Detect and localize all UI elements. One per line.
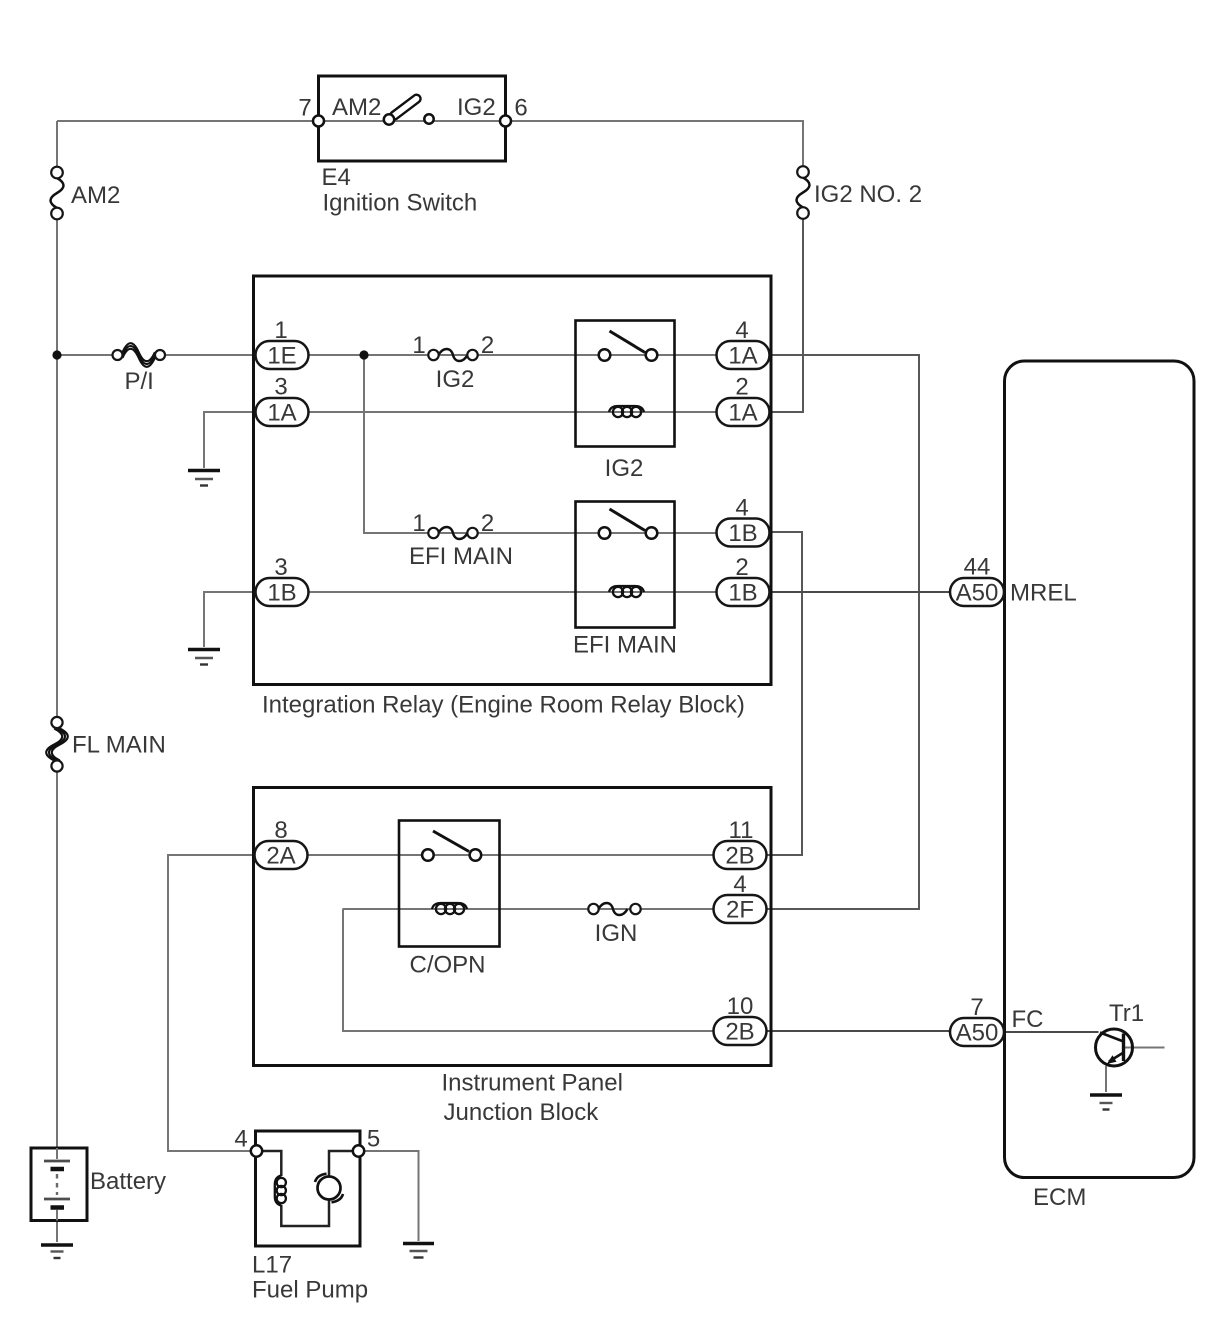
svg-text:2F: 2F xyxy=(726,897,754,924)
svg-text:1B: 1B xyxy=(267,580,296,607)
svg-text:MREL: MREL xyxy=(1010,580,1077,607)
svg-text:4: 4 xyxy=(733,871,746,898)
svg-text:2B: 2B xyxy=(725,843,754,870)
svg-text:3: 3 xyxy=(274,554,287,581)
svg-text:1: 1 xyxy=(274,317,287,344)
svg-text:IG2: IG2 xyxy=(457,94,496,121)
svg-text:7: 7 xyxy=(298,95,311,122)
svg-text:1: 1 xyxy=(412,332,425,359)
svg-text:4: 4 xyxy=(234,1126,247,1153)
svg-text:1A: 1A xyxy=(728,343,757,370)
svg-text:8: 8 xyxy=(274,817,287,844)
svg-text:Fuel Pump: Fuel Pump xyxy=(252,1277,368,1304)
svg-text:2B: 2B xyxy=(725,1019,754,1046)
svg-text:10: 10 xyxy=(727,993,754,1020)
svg-text:4: 4 xyxy=(735,495,748,522)
svg-text:11: 11 xyxy=(729,817,754,844)
svg-text:EFI MAIN: EFI MAIN xyxy=(573,632,677,659)
svg-text:Ignition Switch: Ignition Switch xyxy=(323,190,478,217)
svg-text:1E: 1E xyxy=(267,343,296,370)
svg-text:IG2: IG2 xyxy=(436,366,475,393)
svg-text:ECM: ECM xyxy=(1033,1184,1086,1211)
svg-text:IGN: IGN xyxy=(595,920,638,947)
svg-text:4: 4 xyxy=(735,317,748,344)
svg-text:Tr1: Tr1 xyxy=(1109,1000,1144,1027)
svg-text:3: 3 xyxy=(274,374,287,401)
svg-text:6: 6 xyxy=(514,95,527,122)
svg-text:AM2: AM2 xyxy=(332,94,381,121)
svg-text:Instrument Panel: Instrument Panel xyxy=(442,1070,623,1097)
svg-text:A50: A50 xyxy=(956,1020,999,1047)
svg-text:Battery: Battery xyxy=(90,1168,166,1195)
svg-text:2: 2 xyxy=(481,332,494,359)
svg-text:7: 7 xyxy=(970,994,983,1021)
svg-text:2: 2 xyxy=(735,554,748,581)
svg-text:AM2: AM2 xyxy=(71,182,120,209)
svg-text:IG2: IG2 xyxy=(605,455,644,482)
svg-text:C/OPN: C/OPN xyxy=(409,952,485,979)
svg-text:1A: 1A xyxy=(267,400,296,427)
svg-text:FL MAIN: FL MAIN xyxy=(72,732,166,759)
svg-text:P/I: P/I xyxy=(125,368,154,395)
svg-text:IG2 NO. 2: IG2 NO. 2 xyxy=(814,181,922,208)
svg-text:L17: L17 xyxy=(252,1252,292,1279)
svg-text:1B: 1B xyxy=(728,580,757,607)
svg-text:1: 1 xyxy=(412,510,425,537)
svg-text:2: 2 xyxy=(735,374,748,401)
svg-text:E4: E4 xyxy=(322,164,351,191)
svg-text:Integration Relay (Engine Room: Integration Relay (Engine Room Relay Blo… xyxy=(262,692,745,719)
svg-text:FC: FC xyxy=(1012,1006,1044,1033)
svg-text:EFI MAIN: EFI MAIN xyxy=(409,543,513,570)
svg-text:2A: 2A xyxy=(266,843,295,870)
svg-text:2: 2 xyxy=(481,510,494,537)
svg-text:1B: 1B xyxy=(728,520,757,547)
svg-text:44: 44 xyxy=(964,554,991,581)
svg-text:A50: A50 xyxy=(956,580,999,607)
svg-text:Junction Block: Junction Block xyxy=(444,1099,600,1126)
svg-text:5: 5 xyxy=(367,1126,380,1153)
svg-text:1A: 1A xyxy=(728,400,757,427)
